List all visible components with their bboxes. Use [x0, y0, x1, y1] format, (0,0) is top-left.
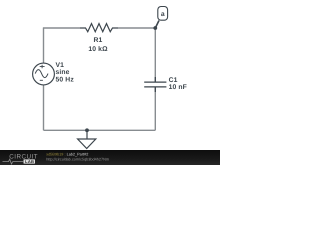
svg-text:R1: R1 [94, 37, 103, 44]
node a junction dot [153, 26, 157, 30]
svg-text:V1: V1 [56, 62, 65, 69]
node a flag [158, 7, 168, 21]
watermark logo waveform [3, 159, 24, 164]
wire left vertical lower [43, 85, 45, 131]
watermark bar [0, 150, 220, 165]
wire left vertical [43, 28, 45, 64]
ground triangle [78, 139, 96, 149]
watermark logo LAB box [24, 159, 36, 163]
svg-text:10 kΩ: 10 kΩ [88, 46, 108, 53]
svg-text:a: a [161, 11, 165, 18]
ground stub [86, 130, 88, 139]
wire right vertical lower [154, 87, 156, 130]
svg-text:50 Hz: 50 Hz [56, 76, 75, 83]
svg-text:http://circuitlab.com/c5qb3bd4: http://circuitlab.com/c5qb3bd4h27Nm [46, 158, 109, 162]
svg-text:LAB: LAB [25, 159, 34, 164]
svg-text:xd5B9b19 : Lab2_Part#2: xd5B9b19 : Lab2_Part#2 [46, 153, 88, 157]
voltage source V1 [33, 63, 55, 85]
resistor R1 [80, 24, 118, 32]
capacitor C1 [144, 77, 166, 92]
wire top left segment [43, 27, 80, 29]
wire right vertical upper [154, 28, 156, 83]
ground junction dot [85, 128, 89, 132]
wire top right segment [118, 27, 155, 29]
svg-text:10 nF: 10 nF [169, 84, 187, 91]
svg-text:sine: sine [56, 69, 70, 76]
wire bottom [44, 129, 156, 131]
node a pointer line [155, 21, 159, 29]
